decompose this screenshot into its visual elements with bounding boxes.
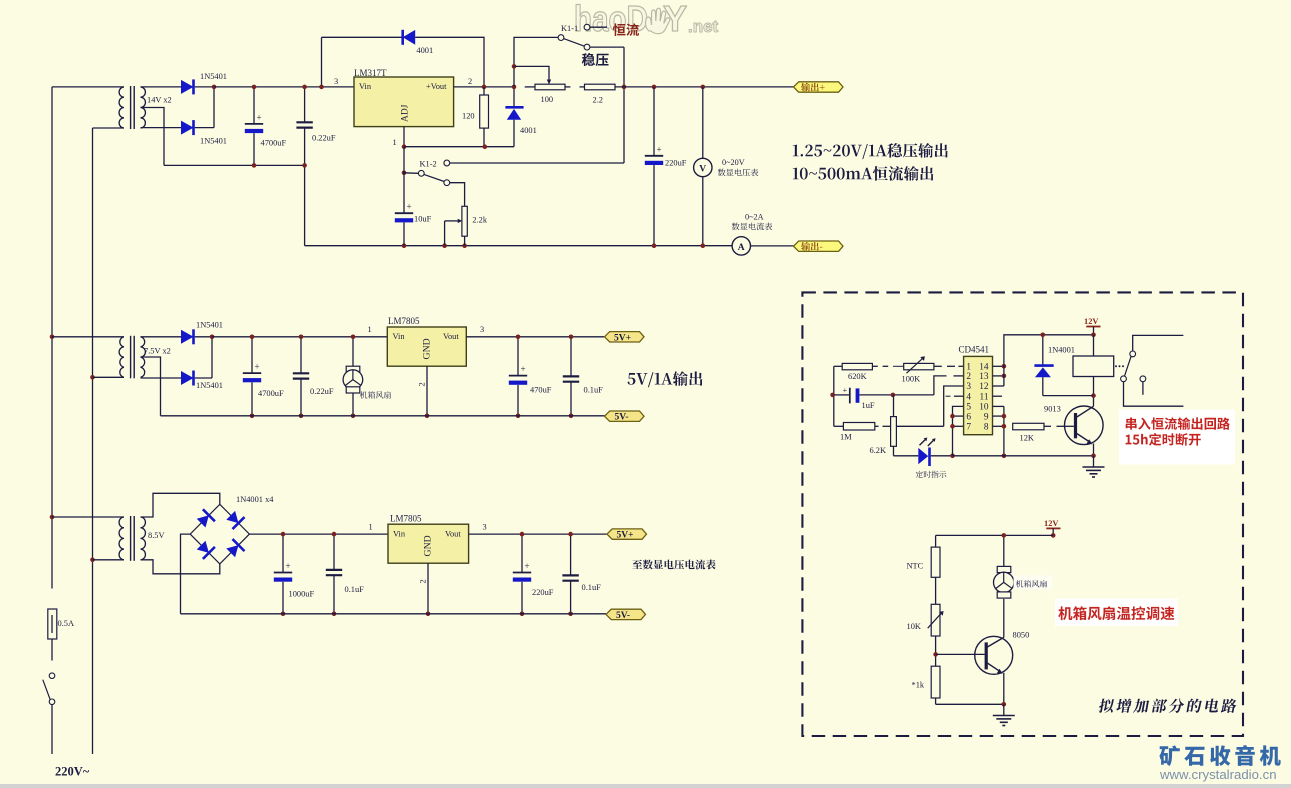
svg-text:Vin: Vin [393, 529, 406, 538]
svg-text:4700uF: 4700uF [258, 389, 284, 398]
node rail x624 [622, 85, 627, 90]
capacitor C10 0.1uF [333, 534, 335, 570]
diode D1 1N5401 top [181, 80, 194, 94]
node C12 bottom [568, 612, 573, 617]
wire Q2 base lead [936, 653, 985, 655]
node R1 top [482, 85, 487, 90]
resistor R3 2.2 [585, 84, 616, 90]
ammeter A1 [732, 237, 750, 255]
svg-text:8.5V: 8.5V [148, 531, 165, 540]
node C11 bottom [520, 612, 525, 617]
svg-text:Vout: Vout [443, 332, 459, 341]
svg-text:0.22uF: 0.22uF [310, 387, 334, 396]
capacitor C2 0.22uF [304, 87, 306, 122]
svg-text:220uF: 220uF [665, 158, 687, 167]
svg-text:100K: 100K [902, 374, 921, 383]
svg-text:5V+: 5V+ [617, 531, 634, 541]
svg-text:2: 2 [418, 382, 427, 386]
switch S1 blade [43, 680, 50, 700]
svg-text:www.crystalradio.cn: www.crystalradio.cn [1159, 767, 1277, 782]
wire input rail to LM317 [214, 86, 354, 88]
wire K1-1 riser [514, 37, 558, 87]
wire pot wiper [514, 66, 549, 81]
svg-text:1uF: 1uF [862, 401, 875, 410]
resistor R7 1M [834, 425, 844, 427]
regulator U2 LM7805 body [387, 327, 466, 366]
resistor R12 *1k [931, 666, 940, 698]
wire U2 GND pin [426, 366, 428, 416]
node output rail K1 riser [512, 85, 517, 90]
svg-text:7.5V x2: 7.5V x2 [144, 346, 171, 355]
diode D5 1N5401 [181, 330, 194, 344]
capacitor C5 4700uF [251, 337, 253, 373]
wire voltmeter drop [702, 87, 704, 159]
wire output rail LM317 to node [454, 86, 514, 88]
svg-text:2: 2 [419, 579, 428, 583]
wire K1-1 upper stub [590, 26, 607, 28]
relay contact lower [1121, 376, 1127, 382]
svg-text:620K: 620K [848, 372, 867, 381]
node pin14 junction [1002, 364, 1007, 369]
node 12V fan node [1051, 533, 1056, 538]
svg-text:+: + [525, 561, 530, 571]
node pot bottom [462, 243, 467, 248]
svg-text:11: 11 [980, 392, 989, 402]
label D7 dingshizhishi [916, 471, 947, 478]
svg-text:+: + [843, 385, 848, 395]
svg-text:GND: GND [423, 535, 434, 556]
node timer cap row left [830, 393, 835, 398]
resistor R8 6.2K [893, 395, 895, 417]
switch S1 upper contact [49, 673, 55, 679]
label red note line1 [1126, 417, 1230, 430]
net arrow output+ [794, 82, 844, 92]
node LED row junction [950, 454, 955, 459]
transistor Q1 9013 [1065, 406, 1104, 445]
dashed enclosure box [802, 292, 1243, 736]
svg-text:+: + [521, 364, 526, 374]
red note box fan [1055, 599, 1178, 627]
wire ground rail section1 [305, 245, 732, 247]
node C6 top [299, 335, 304, 340]
bottom border line [0, 784, 1291, 788]
label M1 jixiang fengshan [360, 391, 391, 399]
svg-text:10: 10 [979, 403, 989, 413]
node M2 top [1002, 533, 1007, 538]
label M2 background [1014, 576, 1053, 590]
wire pin13 stub [993, 375, 1004, 377]
svg-text:1N5401: 1N5401 [196, 381, 223, 390]
switch K1-1 upper contact [584, 24, 590, 30]
wire K1-1 lower contact to riser [590, 46, 624, 48]
red note box timer [1119, 410, 1235, 465]
wire pin7 stub [953, 425, 964, 427]
svg-text:V: V [699, 165, 706, 175]
svg-text:ADJ: ADJ [401, 104, 411, 122]
regulator U3 LM7805 body [388, 524, 469, 563]
node 6.2K top junction [891, 393, 896, 398]
transistor Q2 8050 [975, 636, 1013, 674]
switch K1-2 blade [424, 174, 444, 181]
node rail A junction D2 [213, 87, 215, 128]
svg-text:0.22uF: 0.22uF [312, 134, 336, 143]
voltmeter V1 [694, 158, 712, 176]
svg-text:3: 3 [480, 325, 484, 334]
node C3 top [652, 85, 657, 90]
svg-text:K1-1: K1-1 [561, 24, 578, 33]
svg-text:5: 5 [966, 403, 971, 413]
node C1 bottom [252, 163, 257, 168]
svg-text:4: 4 [966, 392, 971, 402]
potentiometer R11 10K [931, 604, 940, 636]
wire D6 cathode up [195, 377, 212, 379]
node Q2 base junction [933, 652, 938, 657]
node pin6 junction [950, 414, 955, 419]
wire bridge minus to ground rail [181, 534, 191, 614]
wire output rail right [654, 86, 794, 88]
svg-text:LM317T: LM317T [354, 68, 387, 78]
relay contact blade [1125, 357, 1132, 377]
svg-text:0~20V: 0~20V [722, 158, 745, 167]
wire vdd riser [1004, 335, 1094, 386]
label A1 shuxian ammeter [732, 223, 772, 231]
wire T1 primary top lead [52, 86, 124, 88]
wire T2 primary top lead [52, 336, 124, 338]
svg-text:K1-2: K1-2 [420, 159, 437, 168]
wire T1 center tap [141, 108, 165, 166]
switch K1-2 lower contact [444, 180, 450, 186]
wire contact lower to loop [1124, 382, 1184, 407]
svg-text:220uF: 220uF [532, 588, 554, 597]
transformer T2 7.5V x2 [119, 337, 124, 378]
svg-text:+Vout: +Vout [426, 82, 447, 91]
fan M1 chassis fan [352, 337, 354, 366]
ground fan circuit [1003, 704, 1005, 715]
svg-text:12V: 12V [1084, 317, 1098, 326]
svg-text:+: + [407, 202, 412, 212]
wire bypass top right segment [415, 37, 484, 87]
node ADJ junction [402, 144, 407, 149]
svg-text:3: 3 [966, 382, 971, 392]
node T2 primary bottom [90, 375, 95, 380]
node C8 top [569, 335, 574, 340]
capacitor C3 220uF [653, 87, 655, 155]
node 10uF bottom [402, 243, 407, 248]
wire timer ground rail [953, 455, 1094, 457]
svg-text:10K: 10K [907, 622, 921, 631]
node wiper bottom [442, 243, 447, 248]
svg-text:1N5401: 1N5401 [200, 72, 227, 81]
svg-text:12V: 12V [1044, 519, 1058, 528]
wire D1 cathode to rail junction [195, 86, 214, 88]
node voltmeter top [701, 85, 706, 90]
switch K1-1 pivot [558, 35, 564, 41]
capacitor C9 1000uF [282, 534, 284, 572]
wire U1 ADJ pin [403, 127, 405, 147]
wire cap row left [834, 394, 849, 396]
capacitor C13 1uF [849, 388, 851, 404]
bridge diode DB1 (left to top) [197, 515, 209, 527]
capacitor C8 0.1uF [570, 337, 572, 377]
wire mains right rail (x=92.5) [92, 128, 94, 754]
svg-text:1: 1 [393, 138, 397, 147]
thermistor R10 NTC [935, 535, 937, 547]
wire diode to relay bottom [1043, 395, 1094, 397]
IC U4 CD4541 body [964, 356, 993, 434]
svg-text:0.1uF: 0.1uF [345, 585, 365, 594]
svg-text:+: + [657, 144, 662, 154]
node R1 bottom [483, 144, 488, 149]
wire T3 secondary top to bridge [141, 493, 220, 517]
svg-text:100: 100 [541, 95, 554, 104]
label output spec line1 [793, 143, 948, 159]
node M1 top [351, 335, 356, 340]
node wiper junction [512, 64, 517, 69]
wire cap row right [859, 394, 934, 396]
wire D5 cathode to junction [195, 336, 212, 338]
node C7 bottom [516, 414, 521, 419]
label red note fan [1058, 606, 1174, 620]
node pin9 junction [1002, 414, 1007, 419]
wire T1 primary bottom lead [93, 127, 125, 129]
node pin13 junction [1002, 374, 1007, 379]
svg-text:4700uF: 4700uF [261, 138, 287, 147]
wire pin10 to lower riser [993, 405, 1004, 407]
ground timer circuit [1093, 456, 1095, 467]
svg-text:Vin: Vin [393, 332, 406, 341]
node C5 top [250, 335, 255, 340]
diode D4 4001 protection (points up) [513, 87, 515, 107]
wire T3 secondary bottom to bridge [141, 560, 220, 574]
wire D2 cathode up [195, 127, 214, 129]
wire ground rail section1 (y=165.4) [164, 164, 305, 166]
wire T2 primary bottom lead [93, 376, 125, 378]
node C3 bottom [652, 243, 657, 248]
node C2 top [302, 85, 307, 90]
wire T1 secondary bottom lead [141, 127, 182, 129]
node C1 top [252, 85, 257, 90]
node U3 gnd node [426, 612, 431, 617]
capacitor C12 0.1uF [570, 534, 572, 575]
wire T2 secondary bottom lead [141, 377, 182, 379]
svg-text:2.2: 2.2 [593, 95, 603, 104]
node C5 bottom [250, 414, 255, 419]
capacitor C4 10uF [403, 147, 405, 213]
wire T2 center tap [141, 357, 161, 416]
wire fan circuit top rail [936, 534, 1054, 536]
wire section3 output rail [469, 533, 607, 535]
node Q2 emitter ground [1002, 702, 1007, 707]
diode D3 4001 bypass (points left) [401, 30, 404, 45]
capacitor C11 220uF [521, 534, 523, 572]
diode D2 1N5401 bottom [181, 121, 194, 135]
node C9 top [281, 532, 286, 537]
svg-text:1: 1 [369, 522, 373, 531]
wire pin6 stub [953, 415, 964, 417]
resistor R1 120 [483, 87, 485, 95]
net arrow 5V- section2 [605, 411, 645, 421]
wire pins 9-8 riser [1003, 406, 1005, 455]
wire section3 ground rail [181, 613, 607, 615]
wire T1 secondary top lead [141, 86, 182, 88]
switch K1-1 lower contact [584, 44, 590, 50]
label 5V/1A output [628, 371, 703, 387]
svg-text:12: 12 [979, 382, 989, 392]
node pin8 junction [1002, 424, 1007, 429]
logo crystalradio [1159, 745, 1280, 766]
svg-text:GND: GND [422, 338, 433, 359]
transformer T1 14V x2 [119, 87, 124, 128]
switch K1-2 upper contact [444, 160, 450, 166]
node relay bottom junction [1091, 393, 1096, 398]
node T2 primary top [50, 335, 55, 340]
node C2 bottom [302, 163, 307, 168]
svg-text:+: + [255, 362, 260, 372]
wire bridge plus rail [249, 533, 388, 535]
svg-text:7: 7 [966, 423, 971, 433]
wire pin8 stub [993, 425, 1004, 427]
watermark haoDY.net [574, 0, 719, 39]
svg-text:LM7805: LM7805 [390, 514, 422, 524]
label M2 jixiang fengshan [1016, 580, 1047, 588]
op-amp U1 LM317T body [354, 77, 454, 127]
svg-text:14V x2: 14V x2 [147, 96, 172, 105]
svg-text:Vout: Vout [445, 529, 461, 538]
label wenya (CV mode) [582, 53, 609, 66]
capacitor C1 4700uF [253, 87, 255, 124]
wire riser x624 [623, 47, 625, 163]
node C7 top [516, 335, 521, 340]
wire ammeter to output- [751, 245, 794, 247]
resistor R9 12K [1013, 423, 1044, 430]
wire ADJ row [404, 146, 514, 148]
node C12 top [568, 532, 573, 537]
switch K1-1 blade [564, 39, 585, 47]
svg-text:1N4001: 1N4001 [1048, 346, 1075, 355]
node K1-2 branch [402, 171, 407, 176]
node C6 bottom [299, 414, 304, 419]
node C10 top [332, 532, 337, 537]
transformer T3 8.5V [119, 517, 124, 560]
svg-text:NTC: NTC [907, 561, 924, 570]
wire pin14 stub [993, 365, 1004, 367]
wire contact upper to loop [1133, 335, 1184, 351]
wire pin12 stub [993, 385, 1004, 387]
wire section2 output rail [466, 336, 604, 338]
node T3 primary top [50, 515, 55, 520]
wire timer left vertical [833, 366, 835, 426]
pot R4 wiper arm [445, 220, 458, 222]
net arrow 5V+ section2 [605, 332, 645, 342]
bridge diamond wires [190, 504, 249, 564]
LED D7 timing indicator [918, 448, 928, 464]
fan M2 chassis fan [1003, 535, 1005, 566]
svg-text:4001: 4001 [416, 46, 433, 55]
svg-text:12K: 12K [1020, 434, 1034, 443]
wire pin11 stub [993, 395, 1003, 397]
capacitor C7 470uF [517, 337, 519, 375]
wire K1-2 pole lead [404, 172, 418, 175]
svg-text:*1k: *1k [912, 680, 925, 689]
relay linkage dots [1115, 365, 1117, 367]
svg-text:+: + [257, 112, 262, 122]
wire bypass riser [321, 37, 323, 87]
node bypass riser junction [319, 85, 324, 90]
diode D8 1N4001 relay clamp [1042, 335, 1044, 366]
wire bypass top left segment [322, 36, 403, 38]
net arrow 5V+ section3 [607, 529, 647, 539]
node C8 bottom [569, 414, 574, 419]
node voltmeter bottom [701, 243, 706, 248]
node C10 bottom [332, 612, 337, 617]
svg-text:9013: 9013 [1044, 405, 1061, 414]
svg-text:1M: 1M [840, 432, 852, 441]
label V1 shuxian voltmeter [718, 169, 758, 177]
svg-text:Vin: Vin [359, 82, 372, 91]
node U2 gnd node [425, 414, 430, 419]
svg-text:10uF: 10uF [414, 214, 432, 223]
wire section2 input rail [212, 336, 387, 338]
wire mains left rail (x=52) [51, 87, 53, 589]
wire U3 GND pin [427, 563, 429, 614]
wire pin4 stub [946, 395, 951, 397]
wire voltmeter to ground rail [702, 177, 704, 246]
label red note line2 [1126, 433, 1201, 446]
svg-text:0~2A: 0~2A [745, 212, 764, 221]
wire pin2 riser [934, 376, 947, 395]
label to digital meters [632, 560, 715, 570]
label planned circuit note [1098, 699, 1238, 713]
svg-text:14: 14 [979, 363, 989, 373]
relay contact spare [1140, 376, 1146, 382]
svg-text:3: 3 [483, 522, 487, 531]
svg-text:9: 9 [984, 412, 989, 422]
svg-text:LM7805: LM7805 [388, 316, 420, 326]
svg-text:1N5401: 1N5401 [200, 137, 227, 146]
svg-text:1000uF: 1000uF [289, 589, 315, 598]
node C11 top [520, 532, 525, 537]
wire T3 primary top lead [52, 516, 124, 518]
svg-text:6.2K: 6.2K [870, 446, 887, 455]
svg-text:5V+: 5V+ [614, 333, 631, 343]
svg-text:3: 3 [334, 77, 338, 86]
potentiometer R2 100 [525, 86, 535, 88]
svg-text:A: A [738, 243, 745, 253]
wire fan circuit bottom [936, 703, 1004, 705]
wire LED row left [894, 455, 919, 457]
svg-text:0.1uF: 0.1uF [584, 385, 604, 394]
svg-text:1: 1 [966, 363, 971, 373]
net arrow 5V- section3 [606, 609, 646, 619]
svg-text:0.5A: 0.5A [58, 619, 75, 628]
node 12V node [1091, 333, 1096, 338]
node C9 bottom [281, 612, 286, 617]
node D8 top [1041, 333, 1046, 338]
wire section2 ground rail [161, 415, 605, 417]
potentiometer R6 100K [904, 363, 934, 369]
svg-text:6: 6 [966, 412, 971, 422]
node T3 primary bottom [90, 558, 95, 563]
svg-text:0.1uF: 0.1uF [582, 583, 602, 592]
svg-text:5V-: 5V- [616, 611, 630, 621]
wire pin3 riser [944, 386, 964, 426]
wire K1-2 upper contact to riser [450, 162, 624, 164]
node Q1 emitter ground [1091, 454, 1096, 459]
wire LED row right [931, 455, 953, 457]
resistor R5 620K [834, 365, 842, 367]
wire 1M row to riser [896, 425, 943, 427]
node pin7 junction [950, 424, 955, 429]
